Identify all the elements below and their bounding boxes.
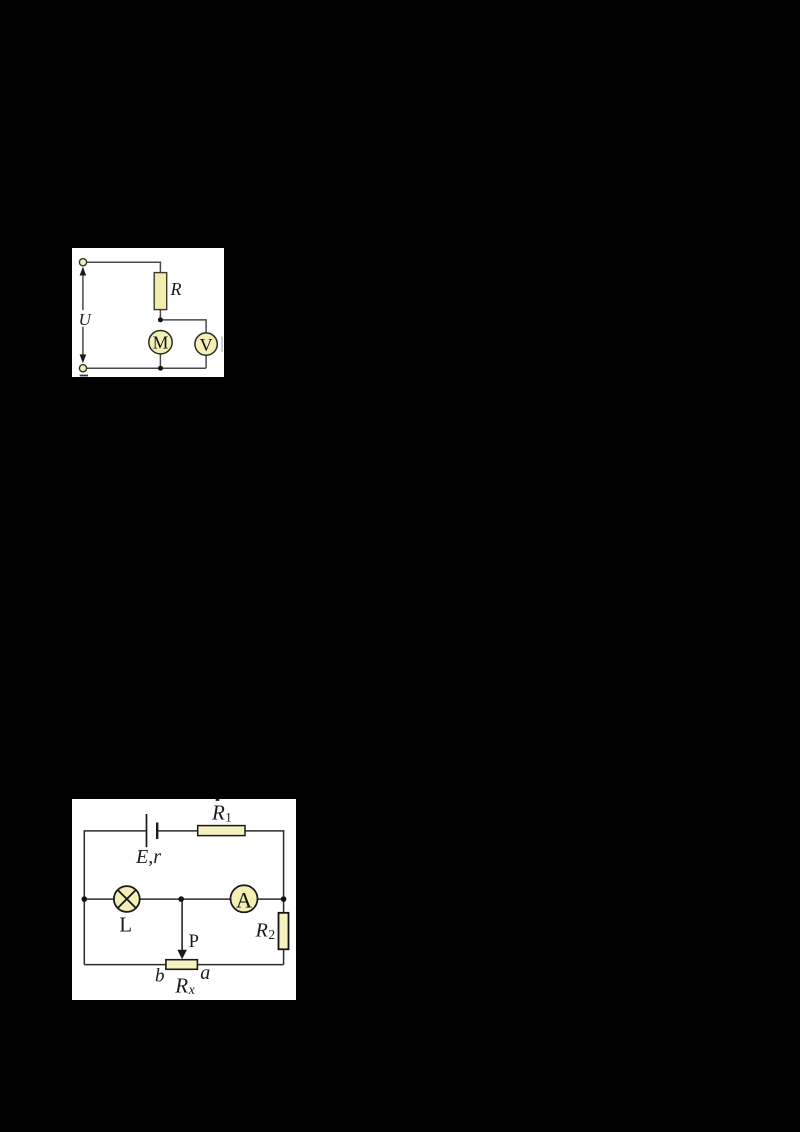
wire bottom rail <box>83 367 206 369</box>
ammeter A <box>231 885 258 912</box>
wire left rail <box>83 830 85 964</box>
U arrowhead up <box>80 266 87 275</box>
svg-text:x: x <box>188 983 196 998</box>
svg-text:2: 2 <box>268 927 275 942</box>
U arrow line upper <box>82 268 84 310</box>
svg-text:P: P <box>189 932 199 952</box>
svg-text:R: R <box>211 801 225 825</box>
wire: resistor bottom to node <box>159 309 161 320</box>
wire bottom rail <box>84 964 283 966</box>
scan artifact right edge <box>221 336 223 352</box>
wire top rail left of battery <box>84 830 146 832</box>
svg-text:R: R <box>170 279 182 299</box>
motor M <box>149 330 172 353</box>
svg-text:V: V <box>200 334 213 354</box>
scan artifact bottom edge <box>80 374 88 376</box>
resistor R <box>154 272 167 309</box>
node right <box>281 896 287 902</box>
battery short plate <box>156 823 158 840</box>
wire top: terminal to resistor <box>87 262 161 272</box>
svg-text:1: 1 <box>225 809 232 824</box>
node junction upper <box>158 317 163 322</box>
resistor R2 <box>279 913 289 950</box>
U arrow line lower <box>82 326 84 358</box>
circuit 2 panel <box>72 799 296 1000</box>
U arrowhead down <box>80 354 87 363</box>
wire: node to voltmeter branch <box>160 319 206 332</box>
terminal top-left <box>79 258 86 265</box>
svg-text:a: a <box>200 962 210 984</box>
svg-text:U: U <box>79 310 93 329</box>
svg-text:A: A <box>236 887 253 912</box>
wire middle rail <box>84 898 283 900</box>
svg-text:b: b <box>155 965 165 986</box>
node junction lower <box>158 365 163 370</box>
wire top rail battery to R1 <box>157 830 197 832</box>
scan artifact top edge <box>216 799 220 801</box>
svg-text:E,r: E,r <box>135 846 161 868</box>
svg-text:L: L <box>119 912 132 936</box>
resistor R1 <box>198 826 245 836</box>
lamp L <box>114 886 140 912</box>
wire top rail R1 to right corner <box>245 830 284 832</box>
wire: voltmeter bottom to rail <box>205 355 207 368</box>
svg-text:R: R <box>174 974 188 998</box>
wire: motor bottom to bottom rail <box>159 353 161 368</box>
voltmeter V <box>195 332 217 354</box>
circuit 1 panel <box>72 248 224 377</box>
node left <box>82 896 88 902</box>
slider arrow P <box>181 899 183 952</box>
svg-text:R: R <box>255 919 268 941</box>
wire right rail <box>283 830 285 964</box>
battery long plate <box>146 814 148 847</box>
node center <box>178 896 184 902</box>
terminal bottom-left <box>79 364 86 371</box>
rheostat Rx <box>166 960 198 970</box>
svg-text:M: M <box>153 332 169 352</box>
